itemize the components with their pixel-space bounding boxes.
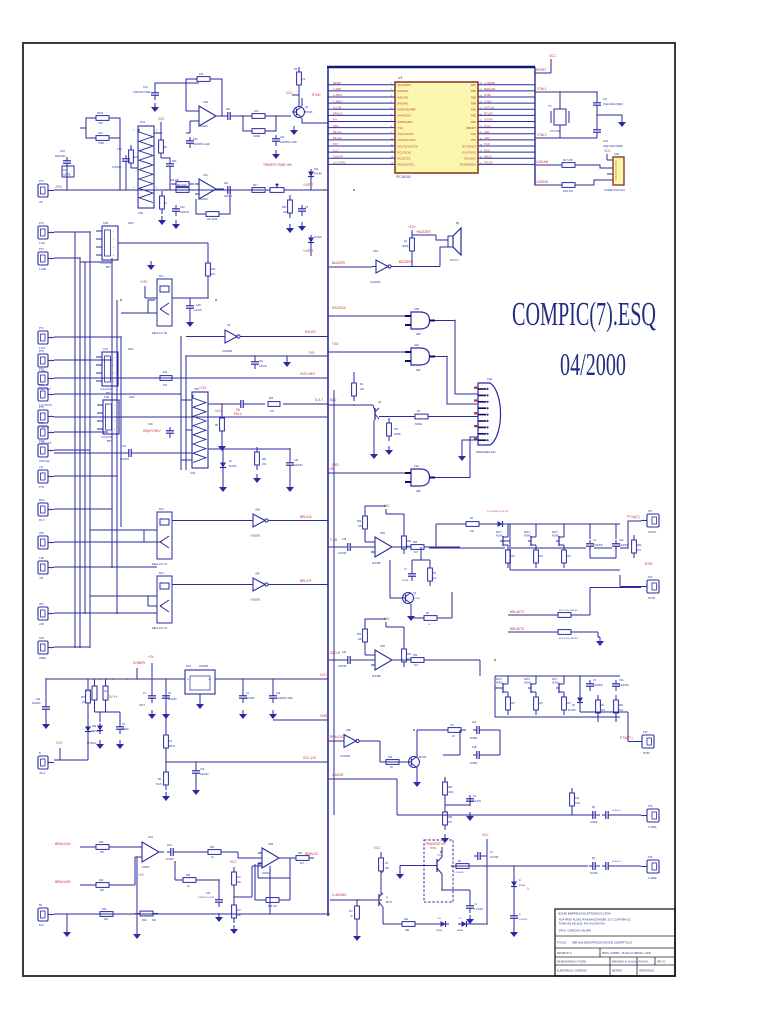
wire U1D inputs: [186, 111, 199, 133]
svg-text:R60: R60: [407, 654, 412, 656]
svg-text:TXD: TXD: [332, 342, 339, 346]
svg-text:R59: R59: [357, 521, 362, 523]
capacitor C2: [510, 912, 518, 923]
wire crystal to caps: [560, 92, 597, 138]
wire row y417: [54, 416, 328, 418]
ground: [441, 834, 449, 843]
transistor Q10 TIP: [432, 852, 442, 880]
svg-text:2700uF: 2700uF: [590, 822, 598, 824]
svg-text:2700uF 1: 2700uF 1: [612, 861, 622, 863]
wire cap junction to ground: [597, 115, 622, 118]
svg-text:D1A: D1A: [472, 721, 477, 724]
svg-text:R13: R13: [575, 798, 580, 800]
wire GND row: [273, 719, 328, 721]
svg-text:C30: C30: [180, 206, 185, 209]
connector PT6: [38, 372, 54, 385]
svg-text:D.CN: D.CN: [484, 124, 490, 128]
capacitor C5: [298, 205, 306, 216]
svg-text:C34: C34: [294, 459, 299, 462]
svg-text:ON.PLAN: ON.PLAN: [39, 460, 50, 463]
svg-text:PT5: PT5: [39, 350, 44, 353]
connector PT2: [38, 226, 54, 239]
capacitor C42: [215, 896, 223, 907]
wire vertical bus x117: [116, 300, 118, 614]
capacitor C1: [474, 852, 485, 860]
wire TR1 pins: [131, 133, 162, 190]
wire vertical bus x121: [120, 337, 122, 527]
svg-text:CN2: CN2: [39, 637, 45, 640]
wire buzzer row: [328, 266, 372, 268]
svg-text:NONE: NONE: [394, 434, 401, 436]
svg-text:PGB: PGB: [39, 440, 45, 443]
wire C3 C43 feeds: [243, 679, 273, 692]
svg-text:MCLR/VPP: MCLR/VPP: [398, 83, 412, 87]
svg-text:1K: 1K: [187, 886, 190, 888]
wire D22 stub: [310, 246, 312, 256]
resistor R43: [95, 912, 118, 917]
svg-text:10K: 10K: [283, 211, 288, 214]
svg-text:ABF: ABF: [416, 369, 421, 372]
wire C26 branch: [66, 168, 68, 190]
dashed box TIP31: [424, 840, 453, 902]
wire fet bank bottom rail: [495, 716, 620, 718]
svg-text:C.ABO2: C.ABO2: [333, 99, 343, 103]
svg-text:RA3/AN3/VREF: RA3/AN3/VREF: [398, 108, 417, 112]
svg-text:BHT: BHT: [107, 441, 112, 443]
resistor R60 row404: [268, 402, 280, 407]
wire feedback A27: [196, 190, 230, 214]
transistor Q6: [407, 757, 420, 768]
wire row CABOBO: [330, 899, 376, 901]
wire audio row2: [80, 884, 95, 886]
svg-text:PIC16C63: PIC16C63: [396, 175, 411, 179]
wire PT5 stub: [641, 866, 647, 868]
wire Q6 emitter gnd: [416, 767, 418, 778]
svg-text:NONE: NONE: [402, 580, 409, 582]
svg-text:U6F: U6F: [255, 573, 260, 576]
wire vertical bus x186: [185, 356, 187, 470]
svg-text:FET6: FET6: [524, 679, 530, 681]
wire R07b to D62: [87, 679, 89, 760]
resistor R5C: [419, 616, 442, 621]
wire R1 top stub: [353, 372, 355, 378]
resistor R40: [232, 867, 237, 890]
resistor R50: [406, 545, 429, 550]
wire block1 input from spine: [328, 546, 344, 548]
svg-text:INT.CI.2: INT.CI.2: [450, 259, 459, 262]
resistor R5B: [443, 728, 466, 733]
wire audio row1: [80, 846, 95, 848]
svg-text:R43: R43: [102, 908, 107, 911]
wire LIGDAM: [536, 164, 557, 166]
svg-text:39B: 39B: [405, 930, 410, 932]
resistor R13: [129, 145, 134, 168]
capacitor C12: [589, 811, 600, 819]
svg-text:RESET: RESET: [333, 81, 342, 85]
wire Q2 collector row: [379, 416, 410, 418]
resistor R1: [410, 233, 415, 256]
svg-text:2K2: 2K2: [211, 274, 216, 276]
svg-text:U1C: U1C: [203, 173, 208, 177]
svg-text:C2D: C2D: [148, 423, 153, 426]
ground: [162, 792, 170, 801]
svg-text:RC0/T1OSO/TCK: RC0/T1OSO/TCK: [398, 144, 419, 148]
wire TR2 left pins: [181, 400, 192, 460]
ground: [298, 222, 306, 231]
svg-text:TIP31: TIP31: [430, 847, 437, 850]
wire U1 left pin 7: [328, 120, 395, 122]
svg-text:+12V: +12V: [140, 280, 148, 284]
wire C22 stub: [45, 679, 47, 720]
resistor R12c row378: [160, 376, 172, 381]
svg-text:500pF/20KV: 500pF/20KV: [143, 429, 162, 433]
svg-text:IN4148: IN4148: [590, 873, 598, 875]
svg-text:TITULO:: TITULO:: [557, 941, 567, 945]
wire U1 left pin 10: [328, 139, 395, 141]
connector J.B: [38, 470, 54, 483]
svg-text:68K: 68K: [100, 890, 105, 892]
svg-text:LIGDAM: LIGDAM: [536, 160, 549, 164]
svg-text:C1D: C1D: [196, 304, 201, 307]
svg-text:VCC: VCC: [158, 117, 165, 121]
svg-text:U3A: U3A: [414, 343, 419, 347]
wire U1 right pin 21: [478, 127, 535, 129]
resistor RP2: [428, 563, 433, 586]
svg-text:R23: R23: [99, 841, 104, 844]
svg-text:PT4: PT4: [39, 327, 44, 330]
relay RL3: [157, 576, 172, 623]
transformer TR1: [138, 126, 154, 208]
svg-text:PT2: PT2: [39, 222, 44, 225]
capacitor C35: [167, 848, 178, 856]
svg-text:BC546: BC546: [419, 757, 427, 759]
svg-text:33pF.CER.(SMD): 33pF.CER.(SMD): [603, 102, 623, 106]
connector CN7 clock: [96, 352, 118, 386]
op-amp U4B: [258, 848, 284, 868]
svg-text:C.LT: C.LT: [333, 148, 339, 152]
ground: [42, 720, 50, 729]
capacitor C14: [122, 155, 130, 166]
svg-text:U6E: U6E: [346, 729, 351, 732]
svg-text:PT3A(T.): PT3A(T.): [620, 736, 633, 740]
resistor K21 video: [62, 166, 74, 177]
svg-text:LIN1: LIN1: [138, 211, 144, 215]
ground: [286, 224, 294, 233]
connector PT5: [38, 354, 54, 367]
op-amp U1D: [195, 106, 221, 126]
wire out row 815: [445, 814, 594, 816]
wire R17 to CN1: [580, 165, 613, 168]
connector PT3: [38, 252, 54, 265]
svg-text:R32: R32: [448, 817, 453, 819]
svg-text:64pF/63V: 64pF/63V: [619, 685, 629, 687]
svg-text:PT3: PT3: [643, 731, 648, 734]
wire bank2 out: [580, 676, 636, 742]
resistor R59: [363, 624, 368, 647]
resistor R3A: [135, 911, 158, 916]
wire BRLAVT1 row: [508, 614, 556, 616]
wire CT rows: [443, 730, 500, 755]
svg-text:C10: C10: [603, 139, 609, 143]
capacitor C5b: [586, 680, 594, 691]
svg-text:PT6: PT6: [648, 856, 653, 859]
wire U1 left pin 9: [328, 133, 395, 135]
resistor RT1: [387, 418, 392, 441]
wire diodes to riser: [470, 839, 487, 924]
svg-text:PT7: PT7: [39, 384, 44, 387]
svg-text:15K: 15K: [237, 882, 242, 884]
svg-text:4.7uF/9V: 4.7uF/9V: [474, 909, 484, 911]
wire R37 loop back: [258, 858, 290, 878]
svg-text:IN4148: IN4148: [314, 237, 322, 239]
svg-text:ELABORACAO: CARDOSO: ELABORACAO: CARDOSO: [557, 970, 587, 973]
resistor R2a: [397, 922, 420, 927]
wire row BZD: [328, 404, 373, 406]
svg-text:Y.ATRT: Y.ATRT: [303, 183, 314, 187]
svg-text:XT.4.00: XT.4.00: [550, 129, 560, 133]
svg-text:R64: R64: [262, 459, 267, 461]
wire TIP collector: [442, 847, 470, 902]
svg-text:1D: 1D: [104, 690, 107, 693]
connector JPB: [38, 536, 54, 549]
svg-text:OUT.LIN: OUT.LIN: [484, 105, 494, 109]
ground: [230, 925, 238, 934]
wire relay feed RL2: [90, 530, 157, 542]
svg-text:PROJETO: C: PROJETO: C: [557, 952, 572, 955]
svg-text:NOME EMPRESA ELETRONICS LTDA: NOME EMPRESA ELETRONICS LTDA: [558, 912, 611, 916]
wire LIGDND: [536, 184, 557, 186]
resistor R23: [91, 845, 114, 850]
svg-text:Y.ATRT: Y.ATRT: [303, 249, 314, 253]
svg-text:D.A.T: D.A.T: [315, 398, 323, 402]
wire R26 stub: [380, 852, 382, 894]
svg-text:CN7: CN7: [103, 348, 109, 351]
svg-text:BHT: BHT: [106, 393, 111, 395]
svg-text:BTW: BTW: [645, 562, 652, 566]
svg-text:22K: 22K: [358, 526, 363, 528]
resistor R8B: [553, 630, 576, 635]
trimpot RMB: [265, 183, 289, 192]
svg-text:BRLIGF: BRLIGF: [300, 579, 312, 583]
svg-text:U3B: U3B: [414, 307, 419, 311]
svg-text:IN4148: IN4148: [568, 710, 576, 712]
wire gate rail: [495, 687, 500, 689]
svg-text:J.B2: J.B2: [39, 557, 45, 560]
connector B2: [38, 908, 54, 921]
capacitor C4b: [192, 767, 200, 778]
wire cap to resistors: [355, 546, 375, 548]
svg-text:PGS: PGS: [39, 499, 45, 502]
svg-text:DAD: DAD: [333, 124, 339, 128]
svg-text:CN2: CN2: [487, 377, 493, 381]
svg-text:FET5: FET5: [496, 679, 502, 681]
transistor Q3: [401, 593, 414, 604]
svg-text:NONE: NONE: [496, 683, 503, 685]
wire inverter out: [395, 256, 412, 267]
svg-text:R33: R33: [172, 160, 177, 163]
svg-text:4K7: 4K7: [300, 863, 305, 865]
svg-text:BRLAVT2: BRLAVT2: [510, 627, 524, 631]
ground: [133, 930, 141, 939]
capacitor C9: [593, 99, 601, 110]
ground: [413, 778, 421, 787]
svg-text:BRLIN: BRLIN: [484, 154, 492, 158]
svg-text:RC5/SDO: RC5/SDO: [464, 157, 476, 161]
svg-text:BZ.AL2: BZ.AL2: [333, 136, 342, 140]
svg-text:COMER: COMER: [133, 661, 146, 665]
resistor R below: [506, 545, 511, 568]
wire Q9 emitter row: [383, 907, 397, 924]
svg-text:R12: R12: [163, 372, 168, 374]
svg-text:C.5B: C.5B: [327, 467, 334, 471]
diode D9: [437, 921, 449, 927]
wire to R07: [235, 189, 247, 191]
ground: [147, 261, 155, 270]
capacitor C7: [408, 570, 416, 581]
svg-text:2: 2: [113, 239, 114, 241]
svg-text:104F/9V: 104F/9V: [246, 698, 255, 700]
svg-text:U6B: U6B: [255, 509, 260, 512]
svg-text:TRIMPOT RMB 10K: TRIMPOT RMB 10K: [263, 163, 293, 167]
svg-text:A67: A67: [567, 555, 572, 558]
resistor R8A: [553, 613, 576, 618]
svg-text:C.ABNE: C.ABNE: [648, 877, 657, 880]
capacitor D6: [237, 400, 248, 408]
capacitor C10: [593, 126, 601, 137]
svg-text:RA5/SS/AN4: RA5/SS/AN4: [398, 120, 414, 124]
wire C34: [289, 449, 291, 483]
svg-text:R.A. (LTD). ME100: R.A. (LTD). ME100: [559, 609, 578, 612]
svg-text:R2a: R2a: [404, 919, 409, 921]
resistor R2C: [596, 695, 601, 718]
wire R38 link: [175, 862, 219, 896]
svg-text:75R: 75R: [98, 122, 103, 125]
wire U1 right pin 19: [478, 139, 535, 141]
connector CN8 clock: [97, 400, 119, 434]
connector PT4: [641, 809, 659, 822]
svg-text:RA2/AN2: RA2/AN2: [398, 101, 409, 105]
diode D5 zener: [494, 521, 506, 527]
svg-text:FET7: FET7: [552, 679, 558, 681]
wire to R10: [235, 115, 247, 117]
svg-text:XTAL1: XTAL1: [537, 87, 547, 91]
transistor Q1: [292, 107, 305, 118]
svg-text:104F/9V: 104F/9V: [338, 553, 347, 555]
wire U1 left pin 2: [328, 90, 395, 92]
svg-text:GND: GND: [320, 714, 328, 718]
resistor R71: [164, 730, 169, 753]
wire XTAL2: [535, 137, 560, 139]
resistor R38: [178, 878, 201, 883]
svg-text:CER.10: CER.10: [224, 196, 233, 198]
wire R10 to Q1: [270, 115, 291, 117]
svg-text:27K: 27K: [270, 411, 275, 413]
resistor R17: [557, 163, 580, 168]
crystal Y1: [551, 92, 569, 138]
svg-text:U6D: U6D: [380, 645, 385, 648]
svg-text:27K: 27K: [448, 822, 453, 824]
resistor R41: [232, 900, 237, 923]
svg-text:R.A. (LTD). ME100: R.A. (LTD). ME100: [559, 637, 578, 640]
wire RG1 in-out: [181, 679, 328, 700]
capacitor C1D: [186, 302, 194, 313]
wire U5C row: [186, 336, 328, 338]
svg-text:PT.B: PT.B: [39, 486, 44, 489]
svg-text:C4A: C4A: [619, 539, 624, 542]
wire C1 stub: [485, 855, 487, 857]
svg-text:TR1: TR1: [140, 120, 146, 124]
wire row 866 right: [487, 865, 588, 867]
wire R.0 stub: [356, 900, 358, 932]
svg-text:RA1/AN1: RA1/AN1: [398, 95, 409, 99]
ground: [63, 928, 71, 937]
connector CN1 VGA: [613, 157, 624, 185]
svg-text:FONE (41) 346-3515. FAX (41) 2: FONE (41) 346-3515. FAX (41) 246-5754: [559, 923, 605, 926]
svg-text:CI.CLOCK: CI.CLOCK: [100, 388, 112, 391]
svg-text:DB9/FEMEA.90G: DB9/FEMEA.90G: [476, 451, 496, 454]
wire relay RL1 coil: [148, 300, 155, 313]
wire Q2 emitter ground: [373, 420, 375, 450]
svg-text:1uF16V: 1uF16V: [194, 310, 203, 312]
svg-text:RB6: RB6: [471, 89, 477, 93]
svg-text:C.4B: C.4B: [330, 538, 337, 542]
diode D22: [308, 235, 314, 246]
wire to R34: [178, 851, 203, 853]
resistor R1G vertical: [103, 679, 108, 712]
resistor RT: [160, 191, 165, 214]
svg-text:TR.BF: TR.BF: [643, 753, 650, 755]
svg-text:TXD: TXD: [308, 351, 315, 355]
svg-text:04/2000: 04/2000: [560, 346, 626, 382]
svg-text:RC7/RX/DT: RC7/RX/DT: [462, 144, 476, 148]
svg-text:100K: 100K: [575, 803, 581, 805]
wire Q6 collector net: [417, 730, 443, 757]
capacitor C32: [224, 112, 235, 120]
wire feedback loop: [186, 79, 222, 116]
capacitor C7: [148, 692, 156, 703]
resistor R04: [171, 188, 194, 193]
svg-text:B.LF: B.LF: [39, 924, 45, 927]
resistor R19: [247, 129, 270, 134]
svg-text:C42: C42: [206, 893, 211, 895]
ground: [151, 103, 159, 112]
wire row 775 net: [328, 779, 445, 815]
svg-text:FOLHA 1: FOLHA 1: [639, 961, 649, 964]
svg-text:JPB: JPB: [39, 532, 44, 535]
svg-text:C14: C14: [117, 148, 122, 151]
ground: [466, 915, 474, 924]
wire U1C out: [221, 188, 224, 190]
svg-text:PT1A(T.): PT1A(T.): [627, 515, 640, 519]
wire R pair bottom: [95, 712, 106, 722]
svg-text:+B.LF: +B.LF: [39, 772, 46, 775]
resistor R26: [379, 853, 384, 876]
svg-text:1K: 1K: [390, 767, 393, 769]
transistor FET2: [528, 534, 536, 548]
svg-text:RL2: RL2: [159, 508, 164, 511]
ground: [596, 637, 604, 646]
svg-text:XTAL2: XTAL2: [537, 133, 547, 137]
resistor R below: [506, 692, 511, 715]
svg-text:J.GND: J.GND: [39, 268, 46, 271]
svg-text:PT1: PT1: [648, 510, 653, 513]
svg-text:104F/POLI.CER: 104F/POLI.CER: [276, 698, 293, 700]
svg-text:A67: A67: [511, 702, 516, 705]
svg-text:IN4861: IN4861: [470, 738, 478, 740]
svg-text:IN4148: IN4148: [314, 174, 322, 176]
wire block2 to bank2: [460, 660, 480, 676]
svg-text:RXLED: RXLED: [305, 330, 316, 334]
